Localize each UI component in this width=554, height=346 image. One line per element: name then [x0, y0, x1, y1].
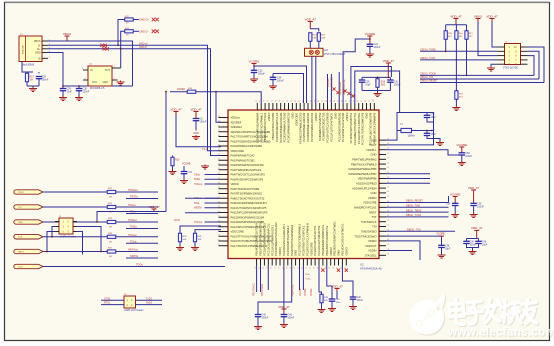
svg-text:LTST-CHKCONECT: LTST-CHKCONECT: [324, 53, 346, 56]
svg-text:PA15/TF/TIOA1/PWML3/WKUP14: PA15/TF/TIOA1/PWML3/WKUP14: [231, 234, 273, 238]
svg-text:72: 72: [264, 100, 266, 102]
svg-text:80: 80: [295, 100, 297, 102]
svg-text:GND: GND: [294, 250, 298, 256]
svg-text:ADVREF: ADVREF: [231, 120, 242, 124]
svg-text:PA18/TIOB0/AD2/WKUP1/2S0B5: PA18/TIOB0/AD2/WKUP1/2S0B5: [231, 139, 271, 143]
svg-text:61: 61: [218, 244, 220, 246]
svg-text:VDD_47: VDD_47: [450, 14, 462, 18]
svg-text:98: 98: [365, 100, 367, 102]
svg-text:ID: ID: [38, 57, 41, 60]
svg-text:41: 41: [387, 167, 389, 169]
svg-text:TRST: TRST: [18, 192, 24, 194]
svg-text:PA6/TXD0/PCK0/TIOB2: PA6/TXD0/PCK0/TIOB2: [231, 187, 260, 191]
svg-text:R18: R18: [381, 82, 386, 84]
svg-text:TDIout: TDIout: [128, 204, 136, 207]
svg-text:PB11/DDP/TXD0/NPCS2: PB11/DDP/TXD0/NPCS2: [325, 225, 329, 256]
svg-text:TMSout: TMSout: [128, 219, 137, 222]
svg-text:R63: R63: [381, 85, 386, 87]
svg-text:VBG/PWM/PB8: VBG/PWM/PB8: [358, 177, 377, 181]
svg-text:PC10/A10/TCLK3/TWD0: PC10/A10/TCLK3/TWD0: [326, 112, 330, 142]
svg-text:75: 75: [275, 100, 277, 102]
svg-text:RTS1: RTS1: [104, 302, 111, 305]
svg-text:0R: 0R: [109, 227, 112, 229]
svg-text:OUT: OUT: [105, 69, 111, 72]
svg-text:100nF: 100nF: [200, 121, 207, 124]
svg-text:100nF: 100nF: [374, 46, 381, 49]
svg-text:PC13/AD9/TCLK4/TXD0: PC13/AD9/TCLK4/TXD0: [341, 112, 345, 142]
svg-text:VDDIO: VDDIO: [329, 247, 333, 256]
svg-text:AD7a: AD7a: [174, 219, 181, 222]
svg-text:TDO: TDO: [18, 266, 23, 268]
svg-text:NANDWE/PWML1/PB7: NANDWE/PWML1/PB7: [348, 172, 377, 176]
svg-text:VDDIO: VDDIO: [344, 247, 348, 256]
svg-text:VCORE: VCORE: [182, 163, 191, 166]
svg-text:10K: 10K: [183, 239, 187, 241]
svg-text:49: 49: [218, 187, 220, 189]
svg-text:TCKout: TCKout: [194, 183, 202, 186]
svg-text:52: 52: [387, 220, 389, 222]
svg-text:VBUS: VBUS: [34, 40, 41, 43]
svg-text:100nF: 100nF: [277, 80, 284, 83]
svg-text:PC14/NCS0/TIOA5/RTS1: PC14/NCS0/TIOA5/RTS1: [349, 112, 353, 143]
svg-text:PA3/TWD0/NPCS3/PCK2: PA3/TWD0/NPCS3/PCK2: [231, 168, 262, 172]
svg-text:www.elecfans.com: www.elecfans.com: [447, 326, 554, 339]
svg-text:VDD_47: VDD_47: [486, 14, 498, 18]
svg-text:VBUS: VBUS: [63, 32, 71, 36]
svg-text:DND-P: DND-P: [139, 46, 147, 49]
svg-text:XIN: XIN: [372, 138, 377, 142]
svg-text:PB13/DAC0/SCK0/TWCK1: PB13/DAC0/SCK0/TWCK1: [341, 223, 345, 256]
svg-text:15pF: 15pF: [431, 117, 437, 119]
svg-text:25: 25: [314, 267, 316, 269]
svg-text:39: 39: [387, 158, 389, 160]
svg-text:CTS1: CTS1: [104, 297, 111, 300]
svg-text:PC23/PWMH0/TIOA2/AD12: PC23/PWMH0/TIOA2/AD12: [274, 222, 278, 256]
svg-text:TxDa: TxDa: [194, 173, 200, 176]
svg-text:100nF: 100nF: [357, 300, 364, 302]
svg-text:16: 16: [279, 267, 281, 269]
svg-text:VDD_47: VDD_47: [305, 17, 317, 21]
svg-text:VDD_47: VDD_47: [383, 59, 395, 63]
svg-text:74: 74: [271, 100, 273, 102]
svg-text:38: 38: [218, 135, 220, 137]
svg-text:2x3Pin Header: 2x3Pin Header: [60, 236, 76, 239]
svg-text:PA19/PWML0/AD3/2S0B6: PA19/PWML0/AD3/2S0B6: [231, 144, 263, 148]
svg-text:PC17/A17/URXD1/WKUP8: PC17/A17/URXD1/WKUP8: [361, 112, 365, 145]
svg-text:DBGU_TCK0: DBGU_TCK0: [406, 214, 422, 217]
svg-text:76: 76: [279, 100, 281, 102]
svg-text:DBGU_TCK1: DBGU_TCK1: [421, 57, 437, 60]
svg-text:12MHz: 12MHz: [408, 136, 416, 138]
svg-text:NRSTa: NRSTa: [194, 207, 202, 210]
svg-text:PA12/MISO/PWMH1/2S1B4: PA12/MISO/PWMH1/2S1B4: [231, 215, 265, 219]
svg-text:VDD_47: VDD_47: [190, 107, 202, 111]
svg-text:VCORE: VCORE: [436, 232, 445, 235]
svg-text:VDD_47: VDD_47: [471, 226, 483, 230]
svg-text:VDDCORE: VDDCORE: [309, 242, 313, 256]
svg-text:PA11/NPCS0/PWMH0/WKUP6: PA11/NPCS0/PWMH0/WKUP6: [231, 211, 268, 215]
svg-text:100nF: 100nF: [470, 244, 477, 246]
svg-text:JTAGSEL: JTAGSEL: [365, 254, 377, 258]
svg-text:50: 50: [218, 192, 220, 194]
svg-text:PB3/AD7/PCK2/TIOB0: PB3/AD7/PCK2/TIOB0: [271, 112, 275, 140]
svg-text:PB14/DAC1: PB14/DAC1: [253, 282, 256, 296]
svg-text:PA30/XIN32: PA30/XIN32: [339, 81, 342, 95]
svg-text:55: 55: [218, 216, 220, 218]
svg-text:PC9/NRD/TIOB3/CTS0: PC9/NRD/TIOB3/CTS0: [322, 112, 326, 140]
svg-text:PC8/NWE/TIOA3/RTS0: PC8/NWE/TIOA3/RTS0: [318, 112, 322, 141]
svg-text:DBGU_TXD: DBGU_TXD: [407, 229, 421, 232]
svg-text:100nF: 100nF: [262, 317, 269, 320]
svg-text:100nF: 100nF: [42, 79, 49, 82]
svg-text:PA10/UTXD0/NPCS2/WKUP5: PA10/UTXD0/NPCS2/WKUP5: [231, 206, 267, 210]
svg-text:VDD_47: VDD_47: [468, 186, 480, 190]
svg-text:0R: 0R: [109, 256, 112, 258]
svg-text:12: 12: [263, 267, 265, 269]
svg-text:VDDIO: VDDIO: [267, 113, 271, 122]
svg-text:MIC2005-0.5: MIC2005-0.5: [90, 87, 105, 90]
svg-text:18: 18: [286, 267, 288, 269]
svg-text:TDIa: TDIa: [305, 274, 311, 276]
svg-text:0R: 0R: [109, 241, 112, 243]
svg-text:JTAG-2x5 IDC: JTAG-2x5 IDC: [503, 67, 519, 70]
svg-text:77: 77: [283, 100, 285, 102]
svg-text:TxLin: TxLin: [202, 148, 209, 151]
svg-text:PC3/D3/PWMH3/NPCS0: PC3/D3/PWMH3/NPCS0: [287, 112, 291, 142]
svg-text:VDD_47: VDD_47: [278, 305, 290, 309]
svg-text:VDDLCD: VDDLCD: [331, 77, 334, 87]
svg-text:PB12/ERASE/NPCS0/TWD1: PB12/ERASE/NPCS0/TWD1: [333, 221, 337, 256]
svg-text:VDDIN: VDDIN: [368, 249, 376, 253]
svg-text:L24: L24: [324, 49, 329, 52]
svg-text:DND+V: DND+V: [139, 42, 148, 45]
svg-text:NANDRDY/PCLK1: NANDRDY/PCLK1: [354, 206, 377, 210]
svg-text:PC30/AD10/TIOA1/CTS1: PC30/AD10/TIOA1/CTS1: [313, 225, 317, 256]
svg-text:TCK/SWCLK: TCK/SWCLK: [361, 220, 377, 224]
svg-text:PC15/NWAIT/TIOB5/CTS1: PC15/NWAIT/TIOB5/CTS1: [353, 112, 357, 145]
svg-text:DBGU_TDO0: DBGU_TDO0: [421, 72, 437, 75]
svg-text:PB9/PCK2: PB9/PCK2: [292, 284, 295, 296]
svg-text:PC0/D0/PWMH0/TCLK0: PC0/D0/PWMH0/TCLK0: [275, 112, 279, 142]
svg-text:PA17/TIOA0/RTS1/AD1/2S0B4: PA17/TIOA0/RTS1/AD1/2S0B4: [231, 135, 269, 139]
svg-text:PC7/D7/PWML3/SPCK0: PC7/D7/PWML3/SPCK0: [310, 112, 314, 142]
svg-text:PB4/TWD1/PWMH2: PB4/TWD1/PWMH2: [352, 158, 377, 162]
svg-text:PC31/AD11/TIOB1/RTS0: PC31/AD11/TIOB1/RTS0: [317, 225, 321, 256]
svg-text:DBGU_TMS0: DBGU_TMS0: [421, 48, 437, 51]
svg-text:NRST: NRST: [18, 251, 25, 253]
svg-text:C40: C40: [482, 241, 487, 243]
svg-text:VCORE: VCORE: [450, 192, 461, 196]
svg-text:23: 23: [306, 267, 308, 269]
svg-text:PC6/D6/PWML2/MOSI0: PC6/D6/PWML2/MOSI0: [306, 112, 310, 141]
svg-text:44: 44: [218, 163, 220, 165]
svg-text:C36: C36: [365, 82, 370, 84]
svg-text:PA7/RTS0/PWMH3/XIN32: PA7/RTS0/PWMH3/XIN32: [231, 192, 263, 196]
svg-text:C38: C38: [445, 245, 450, 247]
svg-text:14: 14: [271, 267, 273, 269]
svg-text:MiniUSB-B: MiniUSB-B: [22, 64, 35, 67]
svg-text:PC26/TDI/TIOA0/PWMH2: PC26/TDI/TIOA0/PWMH2: [290, 224, 294, 256]
svg-text:GND: GND: [371, 191, 377, 195]
svg-text:PC11/A11/TIOA4/TWCK: PC11/A11/TIOA4/TWCK: [330, 113, 334, 142]
svg-text:PA14/SPCK/PWMH3/WKUP7: PA14/SPCK/PWMH3/WKUP7: [231, 225, 267, 229]
svg-text:AVREF: AVREF: [177, 88, 186, 91]
svg-text:PA5/RXD0/NPCS3/WKUP3: PA5/RXD0/NPCS3/WKUP3: [231, 177, 264, 181]
svg-text:0R: 0R: [109, 197, 112, 199]
svg-text:59: 59: [218, 235, 220, 237]
svg-text:43: 43: [218, 159, 220, 161]
svg-text:1M: 1M: [30, 79, 33, 82]
svg-text:GND: GND: [365, 113, 369, 119]
svg-text:37: 37: [218, 130, 220, 132]
svg-text:29: 29: [329, 267, 331, 269]
svg-text:PA9/URXD0/PWMFI0/WKUP4: PA9/URXD0/PWMFI0/WKUP4: [231, 201, 268, 205]
svg-text:10K: 10K: [198, 239, 202, 241]
svg-text:VCORE: VCORE: [456, 143, 467, 147]
svg-text:C34: C34: [446, 202, 451, 205]
svg-text:45: 45: [218, 168, 220, 170]
svg-text:100: 100: [373, 99, 375, 102]
svg-text:VDDCORE: VDDCORE: [231, 230, 245, 234]
svg-text:34: 34: [218, 116, 220, 118]
svg-text:VDDIO: VDDIO: [345, 113, 349, 122]
svg-text:VDDOUT: VDDOUT: [365, 244, 377, 248]
svg-text:VDDIO: VDDIO: [368, 196, 377, 200]
svg-text:VDDPLL: VDDPLL: [366, 148, 377, 152]
svg-text:PC24/D14/SCK1/WKUP11: PC24/D14/SCK1/WKUP11: [282, 224, 286, 256]
svg-text:PA16/TK/TIOB1/PWML2/WKUP15: PA16/TK/TIOB1/PWML2/WKUP15: [231, 239, 273, 243]
svg-text:TCKout: TCKout: [128, 234, 137, 237]
svg-text:PA17/TD/PCK1/PWMH3/AD11: PA17/TD/PCK1/PWMH3/AD11: [231, 244, 268, 248]
svg-text:TDI: TDI: [18, 207, 22, 209]
svg-text:VDDIO: VDDIO: [278, 247, 282, 256]
svg-text:46: 46: [387, 191, 389, 193]
svg-text:TCKa: TCKa: [305, 278, 311, 280]
svg-text:PC29a: PC29a: [310, 288, 313, 296]
svg-text:C41: C41: [188, 171, 193, 174]
svg-text:15pF: 15pF: [431, 134, 437, 136]
svg-text:100nF: 100nF: [83, 91, 90, 94]
svg-text:39: 39: [218, 140, 220, 142]
svg-text:XOUT: XOUT: [369, 143, 377, 147]
svg-text:PC25/D15/RTS1/PWML2: PC25/D15/RTS1/PWML2: [286, 225, 290, 256]
svg-text:DND D-: DND D-: [140, 31, 149, 34]
svg-text:C47: C47: [431, 131, 436, 133]
svg-text:C39: C39: [470, 241, 475, 243]
svg-text:87: 87: [322, 100, 324, 102]
svg-text:TCKa: TCKa: [130, 241, 137, 244]
svg-text:DND D+: DND D+: [140, 19, 150, 22]
svg-text:IN: IN: [90, 69, 93, 72]
svg-text:GND: GND: [102, 81, 108, 84]
svg-text:40: 40: [218, 144, 220, 146]
svg-text:PC1/D1/PWMH1/URXD0: PC1/D1/PWMH1/URXD0: [279, 112, 283, 143]
svg-text:TMSa: TMSa: [130, 226, 137, 229]
svg-text:C31: C31: [394, 82, 399, 84]
svg-text:VDDIO: VDDIO: [368, 239, 377, 243]
svg-text:TRSTa: TRSTa: [130, 196, 138, 199]
svg-text:DNP: DNP: [312, 38, 317, 40]
svg-text:GND: GND: [337, 250, 341, 256]
svg-text:TDI: TDI: [372, 225, 377, 229]
svg-text:R20: R20: [175, 159, 180, 162]
svg-text:PC2/D2/PWMH2/UTXD0: PC2/D2/PWMH2/UTXD0: [283, 112, 287, 142]
svg-text:99: 99: [369, 100, 371, 102]
svg-text:VCORE: VCORE: [365, 32, 376, 36]
svg-text:20: 20: [294, 267, 296, 269]
svg-text:VDDCORE: VDDCORE: [231, 149, 245, 153]
svg-text:GND: GND: [193, 132, 199, 135]
svg-text:100nF: 100nF: [465, 155, 472, 158]
svg-text:100nF: 100nF: [258, 73, 265, 76]
svg-text:10pF: 10pF: [365, 85, 371, 87]
svg-text:PC27a: PC27a: [299, 288, 302, 296]
svg-text:TDIa: TDIa: [194, 202, 200, 205]
svg-text:VDDCORE: VDDCORE: [363, 201, 377, 205]
svg-text:15: 15: [275, 267, 277, 269]
svg-text:GNDANA: GNDANA: [231, 125, 243, 129]
svg-text:DBGU_RESET: DBGU_RESET: [421, 80, 438, 83]
svg-text:PC28a: PC28a: [304, 288, 307, 296]
svg-text:AD3/WKUP12/PB14: AD3/WKUP12/PB14: [352, 186, 377, 190]
svg-text:TCK: TCK: [18, 237, 23, 239]
svg-text:47: 47: [387, 196, 389, 198]
svg-text:GND: GND: [291, 113, 295, 119]
svg-text:GND: GND: [35, 52, 41, 55]
svg-text:PB15/TIOA: PB15/TIOA: [261, 284, 264, 296]
svg-text:ATSAM4CE/A-AU: ATSAM4CE/A-AU: [360, 267, 382, 271]
svg-text:53: 53: [387, 225, 389, 227]
svg-text:96: 96: [357, 100, 359, 102]
svg-text:24: 24: [310, 267, 312, 269]
svg-text:MiniUSB: MiniUSB: [23, 45, 25, 54]
svg-text:59: 59: [387, 254, 389, 256]
svg-text:NRST: NRST: [369, 210, 377, 214]
svg-text:DBGU_RESET: DBGU_RESET: [406, 200, 423, 203]
svg-text:97: 97: [361, 100, 363, 102]
svg-text:79: 79: [291, 100, 293, 102]
svg-text:TRSTout: TRSTout: [128, 189, 138, 192]
svg-text:100n: 100n: [336, 302, 342, 304]
svg-text:93: 93: [346, 100, 348, 102]
svg-text:PA2/PWMH2/SCK0/DATRG: PA2/PWMH2/SCK0/DATRG: [231, 163, 264, 167]
svg-text:100nF: 100nF: [477, 206, 484, 209]
svg-text:TCKout: TCKout: [194, 221, 202, 224]
svg-text:GND: GND: [333, 113, 337, 119]
svg-text:GND: GND: [371, 153, 377, 157]
svg-text:30: 30: [333, 267, 335, 269]
svg-text:PC5/D5/PWML1/MISO0: PC5/D5/PWML1/MISO0: [302, 112, 306, 141]
svg-text:PA8/CTS0/ADTRG/XOUT32: PA8/CTS0/ADTRG/XOUT32: [231, 196, 265, 200]
svg-text:TMS/SWDIO: TMS/SWDIO: [361, 230, 377, 234]
svg-text:81: 81: [299, 100, 301, 102]
svg-text:RxD1: RxD1: [146, 302, 153, 305]
svg-text:10pF: 10pF: [445, 248, 451, 250]
svg-text:PC12/AD8/TIOB4/RXD0: PC12/AD8/TIOB4/RXD0: [337, 112, 341, 142]
svg-text:PA4/TWCK0/TCLK0/WKUP2: PA4/TWCK0/TCLK0/WKUP2: [231, 173, 266, 177]
svg-text:TMS: TMS: [18, 222, 23, 224]
svg-text:D+: D+: [37, 48, 41, 51]
svg-text:40: 40: [387, 162, 389, 164]
svg-text:45: 45: [387, 186, 389, 188]
svg-text:UART-2x2 Header: UART-2x2 Header: [124, 309, 144, 312]
svg-text:C46: C46: [431, 114, 436, 116]
svg-text:VDD_47: VDD_47: [148, 205, 160, 209]
svg-text:70: 70: [256, 100, 258, 102]
svg-text:VDD_47: VDD_47: [170, 107, 182, 111]
svg-text:78: 78: [287, 100, 289, 102]
svg-text:VDDout: VDDout: [231, 116, 241, 120]
svg-text:PC16/A16/TCLK5/DATRG: PC16/A16/TCLK5/DATRG: [357, 113, 361, 144]
svg-text:PA1/PWMH1/TIOB2: PA1/PWMH1/TIOB2: [231, 158, 256, 162]
svg-text:90: 90: [334, 100, 336, 102]
svg-text:PA31/XOUT32: PA31/XOUT32: [343, 79, 346, 95]
svg-text:PB5/TWCK1/PWML0: PB5/TWCK1/PWML0: [351, 162, 377, 166]
svg-text:73: 73: [268, 100, 270, 102]
svg-text:60: 60: [218, 239, 220, 241]
svg-text:TxD1: TxD1: [146, 297, 153, 300]
svg-text:PC29/TCK/TCLK1/PWMH3: PC29/TCK/TCLK1/PWMH3: [305, 223, 309, 256]
svg-text:VCC: VCC: [92, 81, 97, 84]
svg-text:VDD_47: VDD_47: [331, 284, 343, 288]
svg-text:57: 57: [387, 244, 389, 246]
svg-text:TDOa: TDOa: [136, 264, 143, 267]
svg-text:RxDa: RxDa: [194, 178, 201, 181]
svg-text:PC27/TDO/TIOB0/PWML3: PC27/TDO/TIOB0/PWML3: [298, 223, 302, 255]
svg-text:AD0/WKUP0/RTCOUT0/AD12B0: AD0/WKUP0/RTCOUT0/AD12B0: [231, 130, 271, 134]
svg-text:PC4/NCS1/PWML0/SCK0: PC4/NCS1/PWML0/SCK0: [298, 112, 302, 144]
svg-text:VCORE: VCORE: [249, 59, 260, 63]
svg-text:100nF: 100nF: [287, 317, 294, 320]
svg-text:PC28/TMS/TCLK0/PCK1: PC28/TMS/TCLK0/PCK1: [302, 225, 306, 256]
svg-text:NANDOE/PWMH1/PB6: NANDOE/PWMH1/PB6: [348, 167, 377, 171]
svg-text:10pF: 10pF: [482, 244, 488, 246]
svg-text:NRSTa: NRSTa: [130, 255, 139, 258]
svg-text:VDDCORE: VDDCORE: [294, 113, 298, 127]
svg-text:PA0/PWMH0/TIOA2: PA0/PWMH0/TIOA2: [231, 154, 256, 158]
svg-text:NRSTout: NRSTout: [128, 249, 138, 252]
svg-text:36: 36: [218, 125, 220, 127]
svg-text:TST: TST: [371, 215, 376, 219]
svg-text:10uF: 10uF: [67, 91, 73, 94]
svg-text:AD2/DAC0/PB13: AD2/DAC0/PB13: [356, 182, 377, 186]
svg-text:DBGU_TDI0: DBGU_TDI0: [406, 205, 421, 208]
svg-text:VBUS: VBUS: [474, 14, 482, 18]
svg-text:38: 38: [387, 153, 389, 155]
svg-text:VDDBU: VDDBU: [327, 78, 330, 87]
svg-text:TDO/TRACESWO: TDO/TRACESWO: [355, 234, 377, 238]
svg-text:D2B: D2B: [321, 38, 326, 40]
svg-text:C40: C40: [357, 297, 362, 299]
svg-text:86: 86: [318, 100, 320, 102]
svg-text:VDDIO: VDDIO: [231, 182, 240, 186]
svg-text:PB10/DDM/RXD0/NPCS1: PB10/DDM/RXD0/NPCS1: [321, 224, 325, 256]
svg-text:PA13/MOSI/PWMH2/2S1B5: PA13/MOSI/PWMH2/2S1B5: [231, 220, 265, 224]
svg-text:VDDIO: VDDIO: [314, 113, 318, 122]
svg-text:DBGU_TMS0: DBGU_TMS0: [406, 209, 422, 212]
